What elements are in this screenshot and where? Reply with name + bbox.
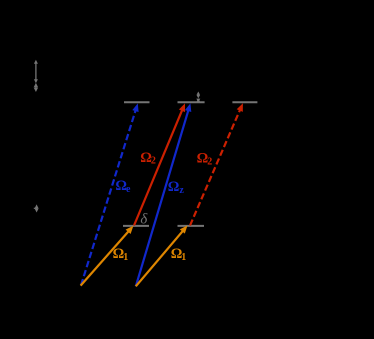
label Omega_e (blue): [115, 178, 131, 195]
axis double-arrow upper (hyperfine splitting): [34, 60, 38, 83]
svg-text:2: 2: [207, 156, 212, 167]
double-arrow above L2 upper: [197, 92, 201, 99]
svg-text:2: 2: [151, 156, 156, 167]
label Omega_z (blue): [168, 179, 185, 196]
svg-text:e: e: [126, 184, 131, 195]
svg-text:1: 1: [123, 252, 128, 263]
level L1 (upper left): [124, 101, 150, 103]
level L2 (upper middle): [178, 101, 205, 103]
arrow Omega_1 right (orange) to I-right: [136, 225, 188, 286]
arrow Omega_z (blue solid) to L2: [136, 103, 192, 286]
svg-text:Ω: Ω: [168, 179, 180, 195]
svg-text:1: 1: [181, 252, 186, 263]
arrow Omega_1 left (orange) to I-left: [81, 226, 134, 286]
double-arrow above L2 lower: [196, 99, 200, 103]
arrow Omega_e (blue dashed) to L1: [81, 103, 139, 285]
axis double-arrow lower (small splitting): [34, 83, 38, 92]
label Omega_2 left (red): [140, 150, 156, 167]
level I-right (intermediate right): [178, 225, 205, 227]
axis tiny double-arrow (Zeeman splitting): [35, 204, 39, 212]
svg-text:z: z: [179, 185, 184, 196]
arrow Omega_2 right (red dashed) I-right to L3: [190, 103, 243, 225]
axis tiny arrow left tick: [34, 207, 36, 209]
label Omega_1 left (orange): [113, 246, 129, 263]
svg-text:δ: δ: [140, 212, 148, 228]
label Omega_2 right (red): [197, 151, 213, 168]
level L3 (upper right): [232, 101, 257, 103]
arrow Omega_2 left (red solid) I-left to L2: [134, 103, 185, 225]
level I-left (intermediate left): [123, 225, 149, 227]
label Omega_1 right (orange): [171, 246, 187, 263]
